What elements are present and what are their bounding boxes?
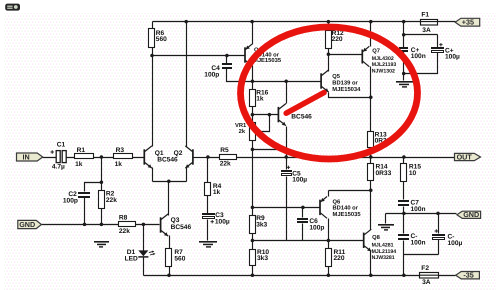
svg-text:100n: 100n bbox=[411, 206, 426, 213]
svg-text:22k: 22k bbox=[106, 197, 117, 204]
logo badge bbox=[5, 4, 20, 11]
tag OUT bbox=[455, 152, 481, 161]
value C5 bbox=[292, 176, 307, 183]
node: input node bbox=[100, 155, 104, 159]
value F2 bbox=[422, 279, 431, 286]
wire: diff pair tail bbox=[153, 168, 187, 216]
svg-text:BC546: BC546 bbox=[157, 157, 178, 164]
node: diff tail bbox=[167, 180, 171, 184]
label R13 bbox=[375, 131, 387, 138]
capacitor C3 bbox=[202, 213, 215, 223]
node: C4 top bbox=[225, 54, 229, 58]
label R14 bbox=[376, 163, 388, 170]
wire: C2 branch bbox=[85, 183, 102, 225]
svg-text:220: 220 bbox=[332, 36, 343, 43]
part Q7 a bbox=[372, 56, 394, 62]
wire: ground stub (right) bbox=[385, 214, 387, 224]
svg-text:R5: R5 bbox=[220, 147, 229, 154]
value C-100n bbox=[411, 239, 426, 246]
resistor R4 bbox=[205, 183, 211, 196]
transistor Q1 bbox=[144, 146, 152, 168]
transistor Q8 bbox=[364, 229, 372, 251]
svg-text:1k: 1k bbox=[256, 96, 264, 103]
svg-text:BD139 or: BD139 or bbox=[332, 80, 358, 87]
svg-text:22k: 22k bbox=[220, 161, 231, 168]
resistor R8 bbox=[119, 222, 136, 227]
ground (input) bbox=[94, 241, 109, 248]
label Q2 bbox=[174, 150, 183, 157]
value R12 bbox=[332, 36, 343, 43]
part Q5 b bbox=[332, 86, 361, 93]
svg-text:F1: F1 bbox=[421, 12, 429, 19]
capacitor C4 bbox=[222, 63, 232, 69]
svg-text:100µ: 100µ bbox=[448, 240, 463, 247]
label C+100n bbox=[411, 47, 420, 54]
value R13 bbox=[375, 138, 391, 145]
wire: Q7 base link bbox=[329, 54, 362, 56]
wire: Zobel R15/C7 column bbox=[404, 158, 439, 276]
node: VAS out R16 bbox=[251, 79, 255, 83]
label Q5 bbox=[332, 73, 341, 80]
svg-text:C1: C1 bbox=[57, 141, 66, 148]
svg-text:4.7µ: 4.7µ bbox=[52, 163, 65, 170]
node: VR1 bottom bbox=[251, 148, 255, 152]
wire: D1 branch bbox=[143, 225, 145, 276]
svg-text:22k: 22k bbox=[119, 228, 130, 235]
node: Q6c/R11/Q8 base bbox=[327, 239, 331, 243]
wire: Q2 collector to +35 rail bbox=[186, 22, 188, 147]
label R11 bbox=[334, 249, 346, 256]
svg-text:100p: 100p bbox=[63, 197, 78, 204]
node: rail/Q2 collector bbox=[184, 20, 188, 24]
wire: C6 branch bbox=[302, 208, 304, 241]
tag +35 bbox=[455, 18, 480, 27]
value C-100u bbox=[448, 240, 463, 247]
resistor R16 bbox=[250, 90, 256, 107]
svg-text:3A: 3A bbox=[422, 27, 431, 34]
svg-text:MJL4281: MJL4281 bbox=[372, 243, 394, 249]
tag GND (right) bbox=[457, 210, 481, 219]
value VR1 bbox=[239, 128, 246, 135]
part Q8 a bbox=[372, 243, 394, 249]
transistor Q7 bbox=[362, 46, 369, 66]
capacitor C6 bbox=[297, 218, 308, 223]
wire: Q6 base bus bbox=[253, 207, 320, 209]
svg-text:2k: 2k bbox=[239, 128, 246, 135]
value R16 bbox=[256, 96, 264, 103]
label R3 bbox=[116, 147, 125, 154]
node: output/R13/R14 bbox=[369, 155, 373, 159]
svg-text:Q5: Q5 bbox=[332, 73, 341, 80]
ground (C3) bbox=[199, 241, 217, 248]
resistor R7 bbox=[166, 249, 172, 267]
svg-text:1k: 1k bbox=[75, 161, 83, 168]
part Q3 bbox=[171, 224, 192, 231]
value C7 bbox=[411, 206, 426, 213]
svg-text:220: 220 bbox=[334, 255, 345, 262]
value R5 bbox=[220, 161, 231, 168]
node: bias emitter on output bbox=[284, 155, 288, 159]
label C-100u bbox=[448, 233, 455, 240]
svg-text:R1: R1 bbox=[77, 147, 86, 154]
ground (top right) bbox=[396, 81, 414, 88]
label F2 bbox=[421, 265, 429, 272]
label VR1 bbox=[235, 123, 247, 129]
resistor R9 bbox=[250, 216, 256, 234]
wire: Q7 collector / R13 / R14 / Q8 collector column bbox=[370, 67, 372, 230]
node: decoupling ground bbox=[402, 72, 406, 76]
transistor Q2 bbox=[185, 146, 193, 168]
part Q4 a bbox=[254, 52, 280, 59]
annotation: red arrow bbox=[286, 93, 324, 114]
resistor R14 bbox=[368, 164, 374, 181]
value R14 bbox=[376, 170, 392, 177]
svg-text:0R33: 0R33 bbox=[376, 170, 392, 177]
svg-text:LED: LED bbox=[125, 255, 138, 262]
tag -35 bbox=[456, 271, 480, 280]
value R9 bbox=[256, 222, 267, 229]
label D1 bbox=[127, 249, 136, 256]
svg-text:R8: R8 bbox=[119, 215, 128, 222]
svg-text:GND: GND bbox=[19, 220, 35, 229]
node: Q6 base/bias bbox=[251, 206, 255, 210]
wire: VAS output node to Q5 base bbox=[253, 81, 321, 83]
part Q1Q2 bbox=[157, 157, 178, 164]
wire: ground bus from GND tag to Q3 base bbox=[42, 224, 160, 226]
node: C2 ground bbox=[83, 223, 87, 227]
LED D1 bbox=[138, 250, 155, 257]
part Q6 b bbox=[333, 211, 362, 218]
value R2 bbox=[106, 197, 117, 204]
wire: Q4 base bus from R6 bbox=[153, 55, 245, 57]
value D1 bbox=[125, 255, 138, 262]
label bias transistor bbox=[291, 114, 312, 121]
wire: VR1 wiper link bbox=[256, 115, 269, 134]
label C6 bbox=[309, 218, 318, 225]
svg-text:100p: 100p bbox=[204, 72, 219, 79]
label R9 bbox=[256, 215, 265, 222]
value R8 bbox=[119, 228, 130, 235]
wire: input from IN tag to Q1 base bbox=[43, 157, 144, 159]
label C4 bbox=[211, 65, 220, 72]
svg-text:MJE15035: MJE15035 bbox=[333, 211, 362, 218]
wire: Q3 emitter / R7 column bbox=[169, 236, 171, 276]
resistor R6 bbox=[149, 29, 155, 48]
wire: bias transistor collector bbox=[286, 82, 288, 104]
label Q6 bbox=[333, 198, 342, 205]
svg-text:-35: -35 bbox=[463, 271, 473, 280]
part Q4 b bbox=[253, 57, 282, 64]
value R4 bbox=[213, 189, 221, 196]
svg-text:1k: 1k bbox=[115, 161, 123, 168]
value C2 bbox=[63, 197, 78, 204]
svg-text:MJL21193: MJL21193 bbox=[372, 62, 397, 68]
wire: +35 supply rail bbox=[153, 21, 456, 23]
fuse F2 bbox=[420, 273, 439, 279]
value C+100u bbox=[445, 54, 460, 61]
wire: Q6 collector down bbox=[328, 219, 330, 241]
svg-text:GND: GND bbox=[463, 210, 479, 219]
svg-text:3A: 3A bbox=[422, 279, 431, 286]
node: Q3 base/D1 bbox=[142, 223, 146, 227]
capacitor C+ 100n bbox=[399, 47, 408, 52]
node: rail/Q7 emitter bbox=[369, 20, 373, 24]
wire: bias chain column bbox=[252, 82, 254, 276]
wire: output bus to OUT tag bbox=[208, 157, 455, 159]
label R16 bbox=[256, 90, 268, 97]
svg-text:NJW3281: NJW3281 bbox=[372, 255, 395, 261]
label R6 bbox=[156, 30, 165, 37]
resistor R2 bbox=[99, 191, 105, 209]
wire: R6 / Q1 collector column bbox=[152, 22, 154, 147]
wire: Q4 collector down bbox=[252, 66, 254, 82]
node: output/R15 bbox=[402, 155, 406, 159]
part Q6 a bbox=[333, 205, 359, 212]
wire: +35 decoupling branch bbox=[404, 22, 438, 81]
wire: Q7 emitter to rail bbox=[370, 22, 372, 47]
label C2 bbox=[68, 191, 77, 198]
node: -rail/R7 bbox=[167, 273, 171, 277]
value C4 bbox=[204, 72, 219, 79]
svg-text:10: 10 bbox=[409, 170, 417, 177]
wire: Q8 emitter to -35 rail bbox=[370, 251, 372, 276]
node: -rail/R10 bbox=[251, 273, 255, 277]
node: rail/Q4 emitter bbox=[250, 20, 254, 24]
wire: Q4 emitter to rail bbox=[252, 22, 254, 45]
resistor R5 bbox=[220, 155, 237, 160]
label C1 bbox=[57, 141, 66, 148]
node: feedback node bbox=[206, 155, 210, 159]
node: -rail/R11 bbox=[327, 273, 331, 277]
svg-text:Q7: Q7 bbox=[372, 47, 380, 54]
value R11 bbox=[334, 255, 345, 262]
svg-text:F2: F2 bbox=[421, 265, 429, 272]
svg-text:BC546: BC546 bbox=[291, 114, 312, 121]
svg-text:100n: 100n bbox=[411, 239, 426, 246]
wire: R12 column bbox=[328, 22, 330, 72]
annotation: red ellipse bbox=[241, 27, 418, 159]
node: R12/Q7 base/Q5 collector bbox=[327, 52, 331, 56]
wire: Q2 base to feedback node bbox=[194, 157, 208, 159]
wire: Q5 emitter to R13 node bbox=[329, 93, 371, 98]
resistor R12 bbox=[326, 31, 332, 49]
value R15 bbox=[409, 170, 417, 177]
value R3 bbox=[115, 161, 123, 168]
svg-text:R3: R3 bbox=[116, 147, 125, 154]
label R15 bbox=[409, 163, 421, 170]
svg-text:100µ: 100µ bbox=[445, 54, 460, 61]
capacitor C- 100n bbox=[398, 234, 409, 240]
capacitor C5 bbox=[281, 166, 292, 176]
svg-text:3k3: 3k3 bbox=[257, 255, 268, 262]
wire: feedback node to R4/C3 bbox=[207, 158, 209, 241]
svg-text:BC546: BC546 bbox=[171, 224, 192, 231]
ground (mid right) bbox=[378, 224, 394, 231]
wire: ground bus to GND tag (right) bbox=[386, 213, 457, 215]
node: rail/R12 bbox=[327, 20, 331, 24]
label Q4 bbox=[254, 46, 263, 53]
label R5 bbox=[220, 147, 229, 154]
svg-text:Q6: Q6 bbox=[333, 198, 342, 205]
svg-text:BD140 or: BD140 or bbox=[333, 205, 359, 212]
wire: C- 100u top stub bbox=[438, 214, 440, 234]
node: Q5e/Q7c/R13 bbox=[369, 95, 373, 99]
node: -rail/Q8 emitter bbox=[369, 273, 373, 277]
fuse F1 bbox=[420, 20, 437, 26]
value C3 bbox=[215, 218, 230, 225]
capacitor C+ 100u bbox=[431, 43, 444, 53]
svg-text:VR1: VR1 bbox=[235, 123, 247, 129]
resistor R11 bbox=[326, 249, 332, 267]
label Q7 bbox=[372, 47, 380, 54]
node: decoupling branch top bbox=[402, 33, 406, 37]
value R7 bbox=[174, 256, 185, 263]
label Q3 bbox=[171, 217, 180, 224]
transistor Q3 bbox=[161, 214, 169, 236]
node: rail/decoupling bbox=[402, 20, 406, 24]
svg-text:100µ: 100µ bbox=[292, 176, 307, 183]
node: input RC bbox=[100, 181, 104, 185]
label R2 bbox=[106, 190, 115, 197]
svg-text:100p: 100p bbox=[309, 225, 324, 232]
label R8 bbox=[119, 215, 128, 222]
wire: R11 column bbox=[328, 241, 330, 276]
node: bias base wiper bbox=[268, 113, 272, 117]
value C6 bbox=[309, 225, 324, 232]
svg-text:560: 560 bbox=[156, 36, 167, 43]
transistor Q6 bbox=[320, 197, 327, 219]
capacitor C2 bbox=[78, 192, 90, 198]
node: R6/Q4 base bbox=[150, 54, 154, 58]
node: C6 top bbox=[301, 206, 305, 210]
bias transistor BC546 bbox=[278, 104, 286, 126]
transistor Q5 bbox=[321, 70, 329, 92]
resistor R15 bbox=[401, 164, 407, 182]
label R4 bbox=[213, 183, 222, 190]
wire: bias transistor base link bbox=[253, 114, 279, 116]
node: gnd bus C7 bbox=[402, 212, 406, 216]
wire: C4 branch bbox=[227, 56, 253, 82]
node: VAS out bias collector bbox=[284, 79, 288, 83]
part Q8 c bbox=[372, 255, 395, 261]
resistor R13 bbox=[368, 132, 374, 148]
svg-text:3k3: 3k3 bbox=[256, 222, 267, 229]
node: bias base left bbox=[251, 113, 255, 117]
trimpot VR1 bbox=[250, 123, 256, 141]
wire: Q6 emitter link bbox=[329, 191, 371, 197]
wire: bias emitter link bbox=[253, 149, 287, 151]
transistor Q4 bbox=[245, 44, 252, 66]
resistor R10 bbox=[250, 250, 256, 266]
svg-text:IN: IN bbox=[23, 152, 30, 161]
value R1 bbox=[75, 161, 83, 168]
resistor R1 bbox=[75, 154, 94, 159]
node: R14/Q6e/Q8c bbox=[369, 189, 373, 193]
wire: input node down to R2/C2 bbox=[101, 158, 103, 225]
label Q1 bbox=[155, 150, 164, 157]
part Q7 c bbox=[372, 68, 395, 74]
label R7 bbox=[174, 249, 183, 256]
value F1 bbox=[422, 27, 431, 34]
label R1 bbox=[77, 147, 86, 154]
part Q5 a bbox=[332, 80, 358, 87]
svg-text:560: 560 bbox=[174, 256, 185, 263]
capacitor C- 100u bbox=[432, 229, 445, 239]
node: R9/R10 junction bbox=[251, 239, 255, 243]
capacitor C7 bbox=[398, 200, 409, 206]
label C-100n bbox=[411, 233, 418, 240]
label C5 bbox=[292, 171, 301, 178]
node: -rail/decoupling bbox=[402, 273, 406, 277]
wire: -35 supply rail bbox=[144, 275, 456, 277]
svg-text:Q8: Q8 bbox=[372, 234, 381, 241]
value R10 bbox=[257, 255, 268, 262]
label C7 bbox=[411, 200, 420, 207]
label R10 bbox=[257, 249, 269, 256]
svg-text:MJL21194: MJL21194 bbox=[372, 249, 397, 255]
value R6 bbox=[156, 36, 167, 43]
wire: bias transistor emitter / C5 column bbox=[286, 127, 288, 241]
resistor R3 bbox=[114, 154, 133, 159]
label Q8 bbox=[372, 234, 381, 241]
part Q8 b bbox=[372, 249, 397, 255]
svg-text:100n: 100n bbox=[411, 53, 426, 60]
label C3 bbox=[215, 212, 224, 219]
label C+100u bbox=[445, 48, 454, 55]
tag IN bbox=[17, 152, 43, 161]
value C1 bbox=[52, 163, 65, 170]
label F1 bbox=[421, 12, 429, 19]
node: R2 ground bbox=[100, 223, 104, 227]
capacitor C1 bbox=[51, 150, 67, 162]
svg-text:NJW1302: NJW1302 bbox=[372, 68, 395, 74]
svg-text:100µ: 100µ bbox=[215, 218, 230, 225]
svg-text:OUT: OUT bbox=[457, 152, 473, 161]
label R12 bbox=[332, 30, 344, 37]
svg-text:MJE15034: MJE15034 bbox=[332, 86, 361, 93]
part Q7 b bbox=[372, 62, 397, 68]
node: gnd bus C-100u bbox=[436, 212, 440, 216]
wire: bootstrap bus R9/R10 to Q8 base bbox=[253, 240, 364, 242]
svg-text:+35: +35 bbox=[462, 18, 474, 27]
value C+100n bbox=[411, 53, 426, 60]
svg-text:MJL4302: MJL4302 bbox=[372, 56, 394, 62]
svg-text:1k: 1k bbox=[213, 189, 221, 196]
tag GND (left) bbox=[18, 220, 42, 229]
